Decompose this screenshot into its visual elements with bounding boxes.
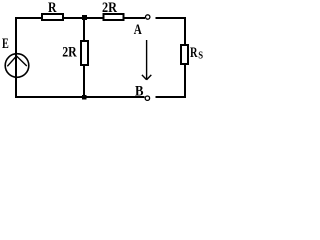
svg-text:E: E xyxy=(2,36,9,52)
svg-text:A: A xyxy=(134,22,142,38)
svg-text:B: B xyxy=(135,83,144,99)
svg-text:R: R xyxy=(190,45,198,61)
svg-text:R: R xyxy=(48,0,57,16)
svg-text:2R: 2R xyxy=(62,44,77,60)
svg-text:S: S xyxy=(198,50,203,62)
svg-text:2R: 2R xyxy=(102,0,117,16)
